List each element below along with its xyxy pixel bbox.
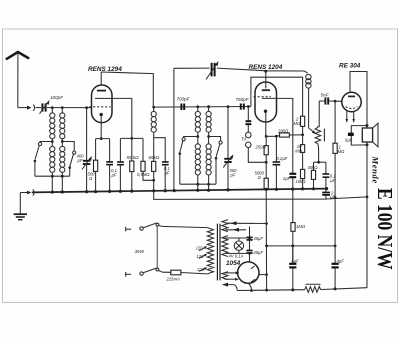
coil L4b (lower)	[195, 144, 200, 191]
tube V1 RENS1294 envelope	[92, 85, 113, 123]
svg-text:110: 110	[196, 245, 203, 250]
svg-text:65kΩ: 65kΩ	[149, 155, 160, 160]
terminal TA upper	[246, 132, 252, 138]
rectifier filament leads	[225, 271, 240, 280]
coil L5a	[206, 105, 211, 143]
band switch S1 (left)	[34, 142, 53, 177]
dial lamp 4V 0.1A	[234, 238, 243, 253]
svg-text:5nF: 5nF	[321, 93, 330, 98]
band switch S2	[62, 142, 75, 177]
wire rectifier anode out	[259, 274, 267, 276]
svg-text:0,5MΩ: 0,5MΩ	[137, 172, 150, 177]
ground symbol	[14, 214, 27, 220]
wire to RF tube grid	[47, 107, 92, 109]
node dots on antenna wire	[51, 106, 54, 109]
tube V2 anode electrode and wire right	[262, 98, 293, 173]
resistor 10M	[301, 135, 305, 170]
capacitor 0.5uF lower	[246, 251, 252, 254]
resistor 290 Ohm	[276, 133, 302, 137]
svg-text:4µF: 4µF	[337, 259, 345, 264]
node grid V3	[334, 100, 337, 103]
antenna	[7, 52, 28, 108]
capacitor 0.1uF (right)	[323, 162, 330, 192]
svg-text:35W: 35W	[135, 249, 145, 254]
coil L1a (antenna coil, upper left)	[50, 108, 55, 147]
svg-text:Mende: Mende	[371, 156, 381, 184]
svg-text:55 kΩ: 55 kΩ	[127, 155, 140, 160]
capacitor 0.1uF (screen bypass)	[117, 162, 124, 191]
tube V2 top cap electrode	[262, 89, 270, 91]
svg-text:6µF: 6µF	[345, 137, 353, 142]
capacitor padder 400pF with trimmer arrow	[82, 108, 92, 192]
ground bus	[32, 189, 327, 193]
coil L1b (lower left)	[50, 146, 55, 192]
svg-text:220: 220	[196, 267, 205, 272]
node junction left coil 1	[51, 140, 54, 143]
resistor 10k	[301, 169, 305, 189]
capacitor 0.1uF (coupling)	[162, 162, 169, 191]
mains switch lower pole	[140, 268, 163, 275]
filament centre-tap lead to bottom line	[222, 283, 237, 291]
band switch S3	[179, 137, 198, 185]
wire B+ feed	[267, 245, 336, 247]
node cathode junction V2	[265, 135, 268, 138]
wire antenna to coupler	[18, 107, 28, 109]
wire cathode network bar	[96, 139, 110, 162]
wire V2 cathode lead	[265, 113, 267, 136]
tube V3 RE304 envelope	[342, 92, 361, 111]
wire V1 top cap to HT line	[100, 72, 102, 85]
svg-text:MΩ: MΩ	[295, 148, 302, 153]
svg-text:MΩ: MΩ	[338, 149, 345, 154]
resistor 500 Ohm (cathode)	[94, 160, 98, 191]
wiper arrow into potentiometer	[309, 128, 314, 132]
coil L2a (upper)	[60, 108, 65, 147]
earth plug connector	[20, 189, 34, 195]
tube V3 filament pins	[346, 111, 356, 123]
wire AVC return	[173, 68, 175, 190]
capacitor 0.2uF	[273, 162, 281, 189]
rectifier internal electrodes	[251, 266, 255, 282]
tube V3 grid arc (dashed)	[346, 107, 358, 109]
svg-text:700pF: 700pF	[177, 97, 191, 102]
svg-text:125: 125	[196, 254, 204, 259]
capacitor 0.5uF upper	[246, 237, 252, 240]
terminal TA lower	[246, 142, 252, 148]
capacitor C 100pF (antenna trimmer)	[36, 100, 50, 114]
wire V1 anode to screen bar	[108, 98, 132, 138]
node junction left coil 2	[61, 140, 64, 143]
node heater feed corner	[265, 222, 268, 225]
svg-text:TA: TA	[241, 137, 247, 142]
rectifier tube 1054	[238, 262, 259, 283]
variable capacitor (tuning) on top line	[206, 61, 219, 80]
wire cap chain vertical	[249, 226, 251, 262]
mains terminal upper	[126, 227, 132, 232]
svg-text:E 100 N/W: E 100 N/W	[372, 188, 395, 270]
svg-text:750pF: 750pF	[236, 97, 250, 102]
wire grid loop around V2	[251, 77, 303, 116]
svg-text:4V 0,1A: 4V 0,1A	[229, 254, 244, 259]
svg-text:4µF: 4µF	[291, 259, 299, 264]
wire detector grid line	[154, 106, 251, 109]
wire V1 cathode lead	[100, 116, 102, 138]
wire stub to grid cap	[154, 138, 166, 162]
svg-text:10kΩ: 10kΩ	[296, 179, 307, 184]
tube V1 control grid (dashed)	[89, 106, 111, 108]
svg-text:µF: µF	[165, 171, 170, 176]
capacitor 4uF (right, black)	[332, 198, 339, 289]
resistor 1M (B+ dropper)	[291, 189, 295, 263]
capacitor padder 500pF with trimmer arrow	[223, 105, 233, 190]
bus junction dots	[51, 187, 329, 194]
heater line	[154, 191, 367, 200]
wire switch return bar	[35, 175, 70, 177]
resistor 250 Ohm	[264, 136, 268, 178]
lamp winding leads	[225, 238, 247, 253]
svg-text:2µF: 2µF	[282, 176, 291, 181]
svg-text:µF: µF	[112, 173, 117, 178]
choke coil (HF choke)	[304, 71, 311, 128]
secondary winding 3 (rectifier filament)	[222, 272, 228, 280]
band switch S4	[209, 137, 223, 185]
node junctions detector coils	[196, 135, 199, 138]
wire anode network bar	[120, 138, 143, 162]
wire V2 top cap to top line	[265, 71, 267, 88]
wire cathode node to bias network	[266, 136, 276, 162]
bottom return wire	[237, 288, 367, 291]
svg-text:40kΩ: 40kΩ	[308, 165, 319, 170]
secondary winding 1 (heaters)	[222, 220, 228, 232]
primary tap arrows	[199, 246, 207, 271]
wire switch to transformer primary top	[162, 226, 207, 227]
svg-text:RE 304: RE 304	[339, 63, 361, 70]
svg-text:pF: pF	[77, 158, 83, 163]
svg-text:225mA: 225mA	[166, 277, 180, 282]
capacitor 700pF	[181, 104, 184, 111]
wire top line (V1 to tuning capacitor to choke)	[101, 72, 153, 107]
speaker	[362, 123, 378, 147]
tube V1 top grid cap electrode	[97, 90, 106, 92]
capacitor 750pF (grid cap)	[241, 104, 244, 110]
svg-text:40µF: 40µF	[253, 236, 263, 241]
svg-text:40µF: 40µF	[253, 250, 263, 255]
switch link bar	[156, 226, 158, 268]
svg-text:1054: 1054	[226, 260, 241, 267]
tube V2 grid (dashed)	[254, 96, 272, 98]
heater winding leads with arrows	[226, 221, 267, 232]
svg-text:pF: pF	[230, 173, 236, 178]
transformer core	[216, 224, 218, 281]
resistor 55k	[130, 138, 134, 191]
coil L4a (detector coil upper)	[195, 105, 200, 143]
grid capacitor (TA, black)	[246, 107, 252, 133]
mains switch upper pole	[140, 223, 162, 230]
potentiometer (regeneration) zigzag	[315, 101, 324, 162]
transformer primary winding	[207, 228, 213, 274]
svg-text:1MΩ: 1MΩ	[296, 224, 306, 229]
wire B+ vertical	[265, 189, 267, 290]
wire V3 anode loop	[350, 72, 367, 126]
coil L3 (RF coupling)	[151, 107, 156, 161]
wire TA return	[248, 148, 266, 163]
capacitor 2uF (black, anode)	[289, 174, 296, 189]
resistor 65k	[152, 161, 156, 191]
resistor 0.5M	[141, 161, 155, 181]
capacitor 0.1uF (cathode bypass)	[106, 162, 113, 192]
fuse 225mA	[162, 270, 207, 275]
wire tuning line	[174, 68, 304, 71]
resistor field/bleeder (zigzag)	[305, 284, 322, 292]
mains terminal lower	[126, 272, 132, 277]
tube V3 top electrode	[348, 95, 355, 97]
antenna plug connector	[27, 105, 35, 111]
wire to earth	[19, 193, 21, 214]
node TA-return junction	[265, 161, 268, 164]
capacitor 4uF (left, black)	[289, 246, 296, 290]
svg-text:MΩ: MΩ	[294, 121, 301, 126]
capacitor 6uF (black, speaker)	[348, 133, 369, 147]
resistor 40k	[311, 162, 315, 189]
resistor 2M (grid leak)	[301, 116, 305, 135]
coil L2b (lower)	[60, 146, 65, 192]
svg-text:290Ω: 290Ω	[277, 128, 289, 133]
tube V1 anode electrode	[95, 97, 108, 99]
resistor 5000 Ohm	[264, 178, 268, 189]
tube V2 RENS1204 envelope	[255, 82, 277, 122]
border frame	[3, 29, 398, 303]
tube V1 cathode	[100, 113, 103, 116]
wire switch return bar (detector)	[180, 183, 216, 185]
wire speaker down line	[366, 126, 368, 288]
wire anode to output transformer	[351, 126, 367, 133]
capacitor 2uF (to heater line)	[322, 193, 330, 200]
svg-text:250Ω: 250Ω	[255, 144, 267, 149]
svg-text:100pF: 100pF	[50, 95, 64, 100]
wire rectifier cathode lead	[248, 283, 251, 290]
coil L5b	[206, 144, 211, 190]
capacitor 5nF	[319, 97, 342, 104]
wire AF coupling bar	[314, 161, 326, 163]
secondary winding 2 (pilot lamp)	[222, 236, 228, 257]
svg-text:0,2µF: 0,2µF	[277, 156, 288, 161]
tube V2 cathode	[264, 110, 267, 113]
resistor 1M (grid V3)	[333, 101, 337, 197]
